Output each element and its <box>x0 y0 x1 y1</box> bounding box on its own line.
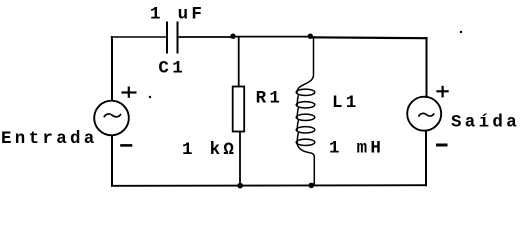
svg-text:1 mH: 1 mH <box>329 138 384 158</box>
node R1 top junction <box>230 34 235 39</box>
inductor L1 <box>296 37 315 185</box>
polarity minus V1 <box>122 144 132 147</box>
wire bottom rail <box>112 184 426 187</box>
source V1 circle (Entrada) <box>94 101 129 136</box>
wire R1 bottom lead <box>239 132 241 186</box>
wire left branch upper <box>111 37 113 101</box>
wire cap to R1 junction <box>179 36 234 38</box>
svg-text:1 kΩ: 1 kΩ <box>182 140 237 160</box>
wire left branch lower <box>111 136 113 186</box>
wire R1 junction to L1 junction <box>233 36 310 38</box>
svg-text:C1: C1 <box>158 59 186 79</box>
wire top-left rail <box>112 36 167 38</box>
polarity plus V1 <box>123 88 136 97</box>
resistor R1 <box>233 87 245 132</box>
wire L1 junction to top-right corner <box>310 36 427 39</box>
capacitor C1 <box>167 23 178 53</box>
polarity plus V2 <box>438 87 448 96</box>
speck near C1 <box>149 96 151 98</box>
speck top-right <box>460 31 462 33</box>
source V2 tilde <box>419 113 434 116</box>
svg-text:L1: L1 <box>332 93 360 113</box>
wire right branch lower <box>425 131 427 186</box>
source V1 tilde <box>104 114 120 117</box>
wire R1 top lead <box>238 37 240 87</box>
node L1 bottom junction <box>309 183 315 189</box>
polarity minus V2 <box>438 144 447 147</box>
node L1 top junction <box>308 34 313 39</box>
source V2 circle (Saida) <box>407 97 441 131</box>
svg-text:R1: R1 <box>256 89 284 109</box>
svg-text:Entrada: Entrada <box>1 129 98 149</box>
svg-text:1 uF: 1 uF <box>150 5 205 25</box>
svg-text:Saída: Saída <box>451 112 520 132</box>
wire right branch upper <box>426 38 428 97</box>
node R1 bottom junction <box>237 183 243 189</box>
